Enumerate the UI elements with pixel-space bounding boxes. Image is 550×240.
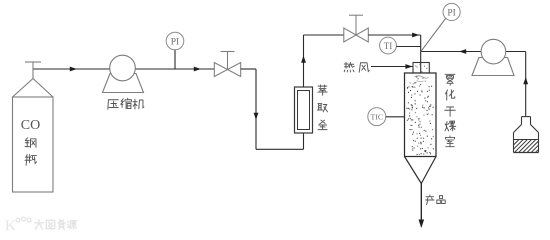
wire: PI leader line [421,18,446,51]
instrument TIC circle [368,108,386,126]
wire: TI tap to dryer inlet pipe [396,46,420,48]
instrument TI circle [380,37,397,54]
instrument PI circle [166,32,184,50]
wire: nozzle feed through [420,63,422,76]
label 釜 [318,120,327,129]
svg-text:K: K [5,218,16,234]
label 钢 [25,138,36,148]
arrow: product flow [419,220,425,229]
arrow: flow into dryer junction [412,33,419,38]
chamber cone bottom [405,157,437,184]
label 产品 [426,195,434,205]
wire: cylinder outlet to compressor (main CO line) [33,68,110,70]
air filter bottle cap [522,116,531,118]
chamber particle stipple [407,77,433,155]
valve V2 bowtie [344,28,369,42]
spray drying chamber shell [405,73,437,157]
svg-text:CO: CO [21,118,40,133]
wire: valve V2 to dryer junction [368,34,420,36]
wire: extractor bottom inlet [303,133,305,149]
arrow: flow PI->valve V1 [194,67,201,72]
svg-text:PI: PI [447,9,455,19]
wire: TIC tap to chamber [386,116,405,118]
arrow: flow up riser [301,56,306,63]
wire: extractor riser [303,35,305,87]
svg-text:TI: TI [384,41,393,51]
valve V2 stem [355,15,357,35]
wire: hot air line into atomizer [371,66,413,68]
gas cylinder CO bottle shoulder [13,79,54,98]
air filter element (hatched) [514,139,539,141]
label 取 [317,104,327,112]
compressor base (trapezoid) [103,74,144,93]
arrow: flow up from filter [523,77,528,84]
blower circle [481,39,506,64]
wire: valve V1 to down-leg [241,68,256,70]
gas cylinder valve handwheel [25,61,41,63]
valve V1 handle bar [221,51,235,53]
label 压缩机 [108,100,118,110]
valve V1 bowtie [214,63,240,77]
extractor vessel outer shell [295,87,313,133]
arrow: flow toward dryer (left) [459,49,466,54]
wire: bottom run to extractor inlet [256,148,304,150]
wire: dryer top vertical inlet [420,35,422,75]
wire: product outlet [420,184,422,227]
label 雾化干燥室 [445,74,455,85]
blower base (trapezoid) [472,58,514,76]
arrow: flow down-leg [254,113,259,120]
valve V1 stem [227,52,229,70]
valve V2 handle bar [349,14,363,16]
instrument PI (after compressor) stem [174,50,176,69]
wire: blower discharge line to dryer junction [421,51,482,53]
label 瓶 [25,155,37,166]
arrow: flow cylinder->compressor [70,67,77,72]
wire: compressor outlet to valve V1 [135,68,215,70]
label 热风 [344,62,354,72]
compressor circle [110,55,136,81]
svg-text:TIC: TIC [371,113,384,122]
wire: down-leg to bottom run [255,69,257,149]
wire: air filter riser (right side) [525,52,527,117]
spray mist swirl [415,76,429,78]
air filter bottle body [513,133,515,153]
wire: riser to valve V2 [304,34,344,36]
extractor vessel inner shell [298,91,310,130]
air filter bottle shoulders [514,125,522,133]
svg-text:PI: PI [171,38,179,48]
instrument PI (dryer) circle [443,3,460,20]
atomizer nozzle box [413,63,429,74]
gas cylinder CO bottle body [13,97,54,192]
air filter bottle neck [521,117,523,125]
arrow: hot air flow [405,64,412,69]
label 萃 [318,85,327,95]
